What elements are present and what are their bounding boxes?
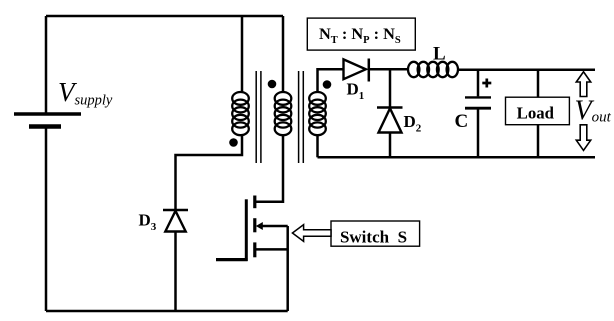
transformer core lines: [256, 71, 303, 163]
wire MOSFET source to bottom rail: [286, 226, 289, 311]
box turns-ratio label: [307, 18, 415, 50]
wire N_S top lead to D1: [318, 69, 344, 93]
wire capacitor C top lead: [477, 70, 480, 97]
svg-text:L: L: [433, 44, 446, 65]
winding N_S coil: [309, 92, 326, 135]
svg-text:D3: D3: [139, 211, 157, 234]
capacitor C plates: [465, 97, 491, 108]
diode D2: [377, 108, 403, 133]
diode D3: [163, 210, 188, 232]
wire D1 cathode to L with D2 junction: [369, 68, 409, 71]
wire D2 anode to bottom rail: [389, 133, 392, 158]
winding N_T coil: [232, 92, 249, 135]
svg-text:D1: D1: [347, 80, 365, 103]
wire capacitor C bottom lead: [477, 108, 480, 157]
wire N_P top drop: [282, 16, 285, 93]
wire top rail primary: [46, 15, 283, 18]
polarity dot N_P: [268, 80, 277, 89]
hollow arrow V_out down: [576, 125, 590, 151]
wire N_T top drop: [241, 16, 244, 93]
svg-text:Vsupply: Vsupply: [58, 77, 113, 109]
wire bottom secondary rail: [318, 156, 596, 159]
transistor Q1 MOSFET switch: [216, 196, 288, 262]
wire left rail upper (battery to top): [45, 16, 48, 113]
wire top rail secondary output: [458, 68, 596, 71]
wire load bottom lead: [537, 125, 540, 158]
wire D2 top lead: [389, 69, 392, 107]
wire load top lead: [537, 70, 540, 98]
wire left rail lower (battery to bottom): [45, 127, 48, 312]
wire N_T bottom lead to D3: [176, 135, 243, 209]
hollow arrow V_out up: [576, 72, 590, 97]
wire D3 anode to bottom rail: [174, 232, 177, 312]
hollow arrow to switch: [292, 225, 331, 242]
polarity dot N_T: [229, 138, 238, 147]
svg-text:Load: Load: [517, 103, 555, 122]
box load: [506, 97, 570, 125]
svg-text:C: C: [455, 111, 469, 132]
wire N_S bottom lead: [316, 135, 319, 157]
inductor L coil: [408, 62, 458, 77]
polarity plus sign for C: [482, 79, 491, 88]
polarity dot N_S: [323, 80, 332, 89]
box switch label: [331, 221, 420, 246]
svg-text:Switch S: Switch S: [340, 228, 407, 247]
winding N_P coil: [275, 92, 292, 135]
svg-text:D2: D2: [404, 112, 422, 135]
svg-text:Vout: Vout: [575, 96, 612, 127]
wire N_P bottom lead to MOSFET drain: [256, 135, 283, 202]
wire bottom rail: [46, 310, 288, 313]
battery V_supply plate long: [14, 112, 81, 115]
battery V_supply plate short: [29, 124, 61, 129]
diode D1: [344, 59, 369, 82]
